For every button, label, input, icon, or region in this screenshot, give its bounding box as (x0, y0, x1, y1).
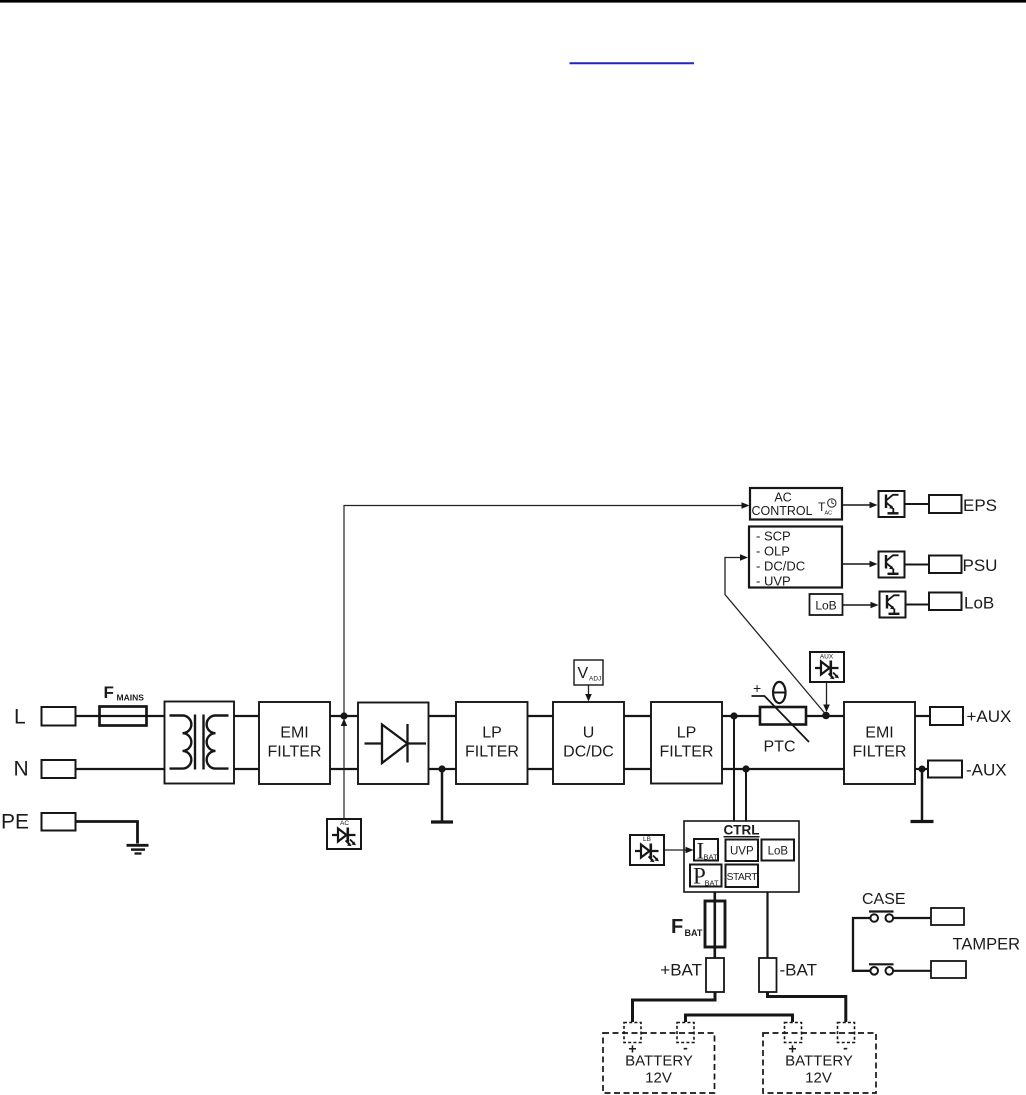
node junction -AUX ground (919, 766, 926, 773)
top page border bar (0, 0, 1026, 3)
wire +BAT to battery1 plus (633, 992, 716, 1022)
wire N to transformer (76, 768, 165, 770)
svg-text:LP: LP (677, 725, 697, 742)
svg-text:FILTER: FILTER (853, 744, 907, 761)
wire switch to tamper connector top (893, 917, 931, 919)
hyperlink underline (570, 62, 695, 64)
connector TAMPER top (931, 908, 964, 925)
wire L to transformer (76, 715, 165, 717)
svg-text:EMI: EMI (865, 725, 893, 742)
wire VADJ arrow (588, 685, 590, 696)
svg-text:UVP: UVP (730, 846, 754, 858)
switch CASE top (869, 910, 894, 912)
terminal battery1 minus (677, 1023, 694, 1043)
optocoupler PSU (879, 552, 905, 578)
ground -AUX (921, 769, 924, 820)
wire EMI to bridge bottom (330, 768, 358, 770)
block UVP (726, 840, 759, 862)
terminal battery2 minus (838, 1023, 855, 1043)
wire output bottom bus (722, 768, 844, 770)
block LP FILTER 2 (651, 702, 722, 784)
node junction AC sense (340, 712, 347, 719)
wire DC/DC to LP2 top (624, 715, 651, 717)
block IBAT (694, 839, 718, 861)
svg-text:N: N (14, 758, 29, 781)
wire LP1 to DC/DC bottom (528, 768, 554, 770)
connector -AUX (928, 761, 962, 778)
svg-text:F: F (671, 916, 683, 938)
bridge rectifier box (358, 703, 429, 785)
svg-text:CTRL: CTRL (724, 823, 760, 838)
wire DC/DC to LP2 bottom (624, 768, 651, 770)
connector EPS (929, 495, 962, 513)
connector -BAT (759, 958, 777, 992)
wire LP1 to DC/DC top (528, 715, 554, 717)
svg-text:AC: AC (340, 820, 349, 827)
svg-text:PE: PE (1, 811, 29, 834)
svg-text:BATTERY: BATTERY (785, 1053, 853, 1070)
wire transformer to EMI filter bottom (234, 768, 259, 770)
wire PTC to EMI2 (806, 715, 844, 717)
LED LB indicator (630, 835, 664, 865)
block LoB ctrl (762, 840, 795, 861)
LED AC indicator (327, 819, 361, 849)
wire EMI2 to +AUX (915, 715, 930, 717)
earth ground PE (127, 844, 149, 847)
transformer TR1 secondary winding (207, 716, 229, 769)
svg-text:LoB: LoB (768, 846, 789, 858)
wire tamper loop left (853, 918, 870, 971)
fuse FMAINS (100, 707, 147, 726)
block LP FILTER 1 (456, 702, 528, 784)
svg-text:FILTER: FILTER (660, 744, 714, 761)
svg-text:TAMPER: TAMPER (953, 936, 1021, 954)
svg-text:+BAT: +BAT (660, 961, 702, 980)
svg-text:U: U (583, 725, 595, 742)
wire switch to tamper connector bottom (893, 970, 931, 972)
wire CTRL to -BAT (766, 892, 768, 958)
terminal battery2 plus (785, 1023, 802, 1043)
wire LP2 to PTC (722, 715, 760, 717)
svg-text:FILTER: FILTER (465, 744, 519, 761)
svg-text:AC: AC (825, 511, 833, 517)
svg-text:- UVP: - UVP (756, 574, 791, 589)
wire AUX LED arrow down (826, 683, 828, 706)
connector +AUX (930, 707, 963, 725)
node junction DC ground (438, 765, 445, 772)
svg-text:FILTER: FILTER (268, 744, 322, 761)
svg-text:LoB: LoB (964, 594, 994, 613)
block EMI FILTER output (844, 702, 915, 784)
transformer TR1 core (194, 715, 196, 770)
svg-text:MAINS: MAINS (117, 693, 145, 703)
arrowhead into AC CONTROL (742, 502, 750, 508)
optocoupler EPS (879, 491, 905, 517)
svg-text:LB: LB (643, 836, 651, 843)
fuse FBAT (705, 901, 725, 947)
wire opto to LoB connector (907, 604, 930, 606)
bridge rectifier diode (365, 742, 427, 744)
svg-text:F: F (104, 683, 114, 702)
node junction to CTRL minus (742, 765, 749, 772)
battery 2 box (763, 1033, 876, 1093)
connector PE (42, 813, 76, 831)
wire bridge to LP filter top (429, 715, 457, 717)
connector TAMPER bottom (931, 961, 966, 978)
svg-text:BAT: BAT (704, 853, 718, 862)
svg-text:DC/DC: DC/DC (563, 744, 614, 761)
wire LB LED to IBAT (665, 849, 688, 851)
svg-text:CASE: CASE (862, 891, 906, 908)
connector L (42, 707, 76, 726)
connector LoB (929, 593, 962, 611)
wire EMI to bridge top (330, 715, 358, 717)
node junction AUX (822, 712, 830, 720)
wire opto to EPS connector (906, 503, 930, 505)
svg-text:BAT: BAT (705, 879, 719, 888)
block VADJ (574, 660, 603, 685)
block protections SCP OLP DC/DC UVP (749, 527, 842, 588)
block U DC/DC converter (553, 702, 624, 784)
switch CASE bottom (869, 963, 894, 965)
svg-text:V: V (578, 665, 589, 682)
battery 1 box (603, 1033, 715, 1093)
wire PE to earth (76, 822, 138, 844)
wire battery1 minus to battery2 plus (686, 1015, 793, 1022)
wire SCP block to opto PSU (842, 563, 871, 565)
svg-text:+: + (753, 680, 761, 696)
connector N (42, 760, 76, 778)
wire AC CONTROL to opto EPS (842, 504, 871, 506)
wire -BAT to battery2 minus (768, 992, 846, 1022)
block START (726, 865, 759, 888)
thermistor PTC (760, 707, 806, 725)
svg-text:- SCP: - SCP (756, 529, 791, 544)
wire AC LED to junction (343, 721, 345, 818)
icon clock (828, 499, 836, 507)
transformer TR1 primary winding (170, 716, 192, 769)
optocoupler LoB (880, 592, 906, 618)
svg-text:- OLP: - OLP (756, 544, 790, 559)
block EMI FILTER input (259, 702, 330, 784)
svg-text:PSU: PSU (963, 556, 998, 575)
connector +BAT (706, 958, 724, 992)
ground DC bus (441, 769, 444, 821)
arrowhead into SCP block (740, 554, 748, 560)
svg-text:BAT: BAT (685, 928, 703, 938)
wire transformer to EMI filter top (234, 715, 259, 717)
svg-text:PTC: PTC (764, 739, 796, 756)
svg-text:- DC/DC: - DC/DC (756, 559, 805, 574)
block LoB source (810, 594, 843, 615)
svg-text:AC: AC (774, 491, 791, 505)
svg-text:12V: 12V (805, 1070, 832, 1087)
svg-text:EPS: EPS (963, 496, 997, 515)
svg-text:CONTROL: CONTROL (751, 504, 812, 518)
wire LoB block to opto LoB (843, 604, 873, 606)
wire bridge to LP filter bottom (429, 768, 457, 770)
connector PSU (929, 556, 962, 574)
terminal battery1 plus (624, 1023, 641, 1043)
svg-text:+AUX: +AUX (967, 707, 1012, 726)
wire EMI2 to -AUX (915, 768, 928, 770)
svg-text:L: L (14, 706, 26, 729)
svg-text:LP: LP (482, 725, 502, 742)
transformer TR1 box (165, 702, 235, 784)
wire junction to CTRL minus (745, 769, 747, 821)
svg-text:LoB: LoB (815, 599, 836, 613)
node junction to CTRL plus (730, 712, 737, 719)
svg-text:BATTERY: BATTERY (625, 1053, 693, 1070)
svg-text:12V: 12V (645, 1070, 672, 1087)
LED AUX indicator (810, 652, 844, 682)
block CTRL (684, 821, 799, 892)
svg-text:AUX: AUX (820, 654, 834, 661)
svg-text:EMI: EMI (280, 725, 308, 742)
wire opto to PSU connector (906, 564, 930, 566)
svg-text:START: START (727, 872, 758, 883)
wire junction to SCP monitor block (725, 558, 825, 714)
wire CTRL to FBAT fuse (713, 892, 716, 958)
svg-text:-AUX: -AUX (966, 761, 1007, 780)
wire AC sense to AC CONTROL (344, 506, 743, 717)
block PBAT (690, 865, 722, 887)
block AC CONTROL (750, 488, 842, 520)
arrowhead up to junction (341, 719, 347, 727)
svg-text:ADJ: ADJ (589, 676, 601, 683)
wire junction to CTRL plus (733, 716, 735, 821)
svg-text:-BAT: -BAT (780, 961, 817, 980)
